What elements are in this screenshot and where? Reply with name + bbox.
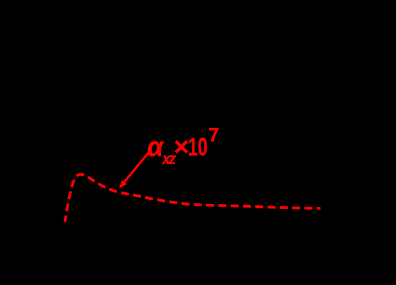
svg-text:10: 10 [188,134,208,162]
svg-text:×: × [174,132,189,162]
svg-text:7: 7 [209,126,220,147]
